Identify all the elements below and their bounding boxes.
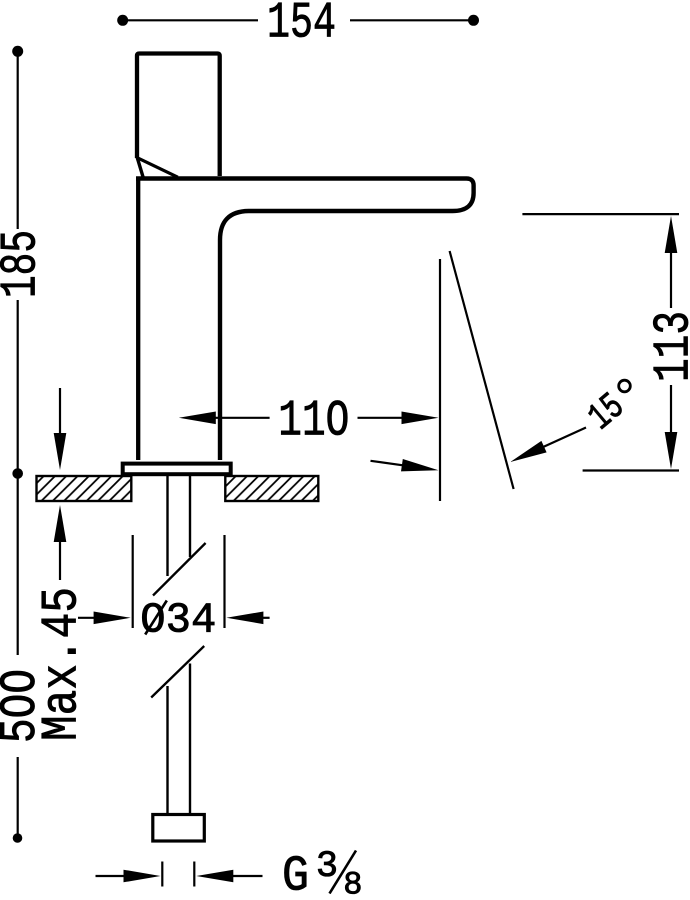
dim G3/8 left arrow line: [96, 875, 128, 877]
body left edge: [136, 180, 140, 460]
dim Max.45 down arrow line: [59, 388, 61, 438]
dim 113 line upper: [670, 249, 672, 308]
dim G3/8 ext line left: [161, 862, 163, 887]
shank left line lower: [166, 686, 168, 814]
dim 110 left arrowhead: [179, 412, 216, 425]
svg-text:8: 8: [343, 867, 362, 900]
inlet end block: [153, 815, 205, 842]
svg-text:Max.45: Max.45: [34, 587, 91, 741]
dim O34 ext line left: [132, 535, 134, 628]
shank right line lower: [189, 664, 191, 815]
svg-text:G: G: [282, 849, 309, 900]
dim 113 line lower: [670, 385, 672, 436]
shank right line upper: [189, 475, 191, 558]
dim 500 line upper: [17, 476, 19, 655]
spout body outline: [136, 179, 474, 461]
svg-text:3: 3: [316, 846, 338, 888]
dim 154 line left: [124, 19, 258, 21]
break mark 2: [151, 646, 204, 698]
svg-text:113: 113: [646, 311, 690, 382]
15 deg leader arrowhead: [510, 441, 546, 462]
dim 110 line left: [213, 417, 270, 419]
fraction slash: [330, 851, 357, 894]
dim O34 right arrow line: [258, 617, 270, 619]
outlet vertical reference line: [439, 259, 441, 501]
dim 500 line lower: [17, 757, 19, 836]
dim G3/8 right arrow line: [230, 875, 263, 877]
handle lever lower-left edge: [137, 158, 144, 180]
dim 113 top arrowhead: [665, 216, 678, 253]
dim 113 top ext line: [522, 213, 679, 215]
shank left line upper: [166, 475, 168, 577]
dim 113 bottom arrowhead: [665, 432, 678, 469]
svg-text:185: 185: [0, 230, 51, 298]
handle lever diagonal: [138, 158, 178, 177]
dim G3/8 right arrowhead: [196, 870, 233, 883]
15 deg leader line: [536, 428, 586, 451]
dim 185 dot top: [12, 46, 23, 57]
svg-text:154: 154: [267, 0, 336, 53]
countertop right (hatched): [225, 476, 318, 501]
svg-text:11O: 11O: [278, 394, 349, 451]
dim 185 line lower: [17, 300, 19, 471]
dim O34 label slash: [145, 601, 167, 635]
15 deg slanted line: [450, 251, 514, 489]
surface leader arrow line: [371, 461, 411, 467]
dim 154 dot left: [117, 15, 128, 26]
dim O34 left arrow line: [78, 617, 97, 619]
svg-text:O34: O34: [140, 596, 216, 645]
dim 110 line right: [358, 417, 405, 419]
surface leader arrowhead: [401, 459, 439, 471]
dim Max.45 up arrow line: [59, 538, 61, 580]
dim 113 bottom ext line: [583, 469, 679, 471]
dim 500 dot bottom: [13, 833, 23, 843]
base plate: [123, 464, 231, 475]
dim 110 right arrowhead: [402, 412, 439, 425]
dim 185/500 shared dot: [12, 468, 23, 479]
dim O34 ext line right: [223, 535, 225, 628]
faucet handle: [137, 54, 220, 177]
dim G3/8 left arrowhead: [124, 870, 161, 883]
dim 154 line right: [350, 19, 471, 21]
break mark 1: [153, 543, 206, 596]
dim G3/8 ext line right: [193, 862, 195, 887]
dim 154 dot right: [468, 15, 479, 26]
dim Max.45 up arrowhead: [54, 505, 67, 542]
dim 185 line upper: [17, 53, 19, 229]
15 deg degree ring: [619, 380, 631, 392]
dim Max.45 down arrowhead: [54, 433, 67, 470]
countertop left (hatched): [37, 476, 132, 501]
dim O34 right arrowhead: [226, 612, 263, 625]
dim O34 left arrowhead: [94, 612, 131, 625]
